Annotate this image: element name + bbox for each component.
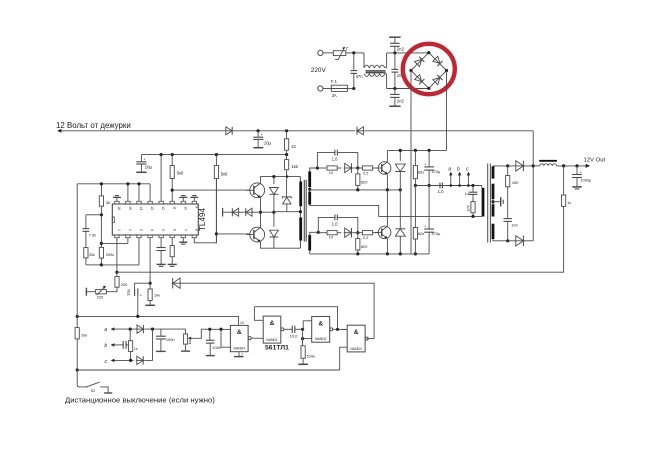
svg-text:7: 7: [183, 229, 187, 231]
label 150: [512, 180, 519, 185]
capacitor 1,0 (speed-up bottom): [318, 215, 358, 233]
test point a: [448, 166, 452, 187]
resistor 62к (bottom): [413, 186, 417, 254]
transistor Q4: [375, 226, 391, 239]
wire (to NAND4): [201, 328, 230, 330]
capacitor 10µ standby: [253, 131, 263, 148]
svg-text:F 1: F 1: [331, 79, 338, 84]
diode (base, bottom): [344, 228, 353, 237]
label 14: [240, 321, 244, 325]
label 7: [241, 353, 243, 357]
wire pin4: [149, 238, 151, 284]
node: [562, 164, 565, 167]
T2 secondary: [492, 166, 495, 239]
bridge nodes: [409, 51, 448, 90]
label 12 Вольт от дежурки: [56, 121, 131, 130]
svg-text:10: 10: [183, 206, 187, 210]
label 510к: [307, 354, 316, 359]
node: [414, 184, 417, 187]
svg-text:1м: 1м: [188, 340, 192, 345]
svg-text:+: +: [143, 158, 146, 162]
svg-text:Дистанционное выключение (если: Дистанционное выключение (если нужно): [65, 396, 215, 405]
label 10n: [397, 73, 405, 78]
wire (error amp bus): [77, 183, 150, 185]
wire (collector rail): [387, 149, 446, 151]
svg-text:10n: 10n: [511, 223, 518, 228]
wire (logic supply bus): [77, 316, 238, 325]
node: [285, 129, 288, 132]
test point b: [457, 166, 461, 187]
node: [76, 368, 79, 371]
input b: [104, 343, 123, 349]
node: [301, 337, 304, 340]
label 2,2: [363, 235, 369, 240]
wire pin13: [149, 184, 151, 202]
svg-text:100: 100: [466, 205, 470, 211]
svg-text:TL494: TL494: [198, 207, 207, 231]
wire pin14: [137, 182, 140, 201]
svg-text:b: b: [104, 343, 107, 349]
label 33к: [89, 252, 95, 257]
diode (input a): [136, 325, 144, 333]
transformer T1 primary: [299, 177, 301, 249]
node: [414, 252, 417, 255]
svg-text:+: +: [580, 170, 583, 174]
svg-text:16: 16: [117, 206, 121, 210]
diode (clamp lower): [270, 212, 279, 248]
label +: [580, 170, 583, 174]
transistor Q3: [375, 162, 391, 175]
svg-text:11: 11: [172, 206, 176, 210]
svg-text:&: &: [318, 320, 323, 327]
T2 core: [488, 164, 491, 243]
resistor 150: [506, 166, 510, 219]
svg-text:820: 820: [361, 179, 368, 184]
thermistor RT1: [333, 47, 346, 60]
label 10к: [81, 332, 87, 337]
svg-text:62к: 62к: [418, 170, 424, 175]
svg-text:12: 12: [161, 206, 165, 210]
bridge wiring: [411, 53, 447, 89]
bridge diode D2 (top-right): [433, 56, 443, 66]
ground (pot left): [85, 288, 87, 296]
svg-text:NAND2: NAND2: [315, 337, 327, 341]
label 1n: [465, 192, 469, 196]
svg-text:10к: 10к: [81, 332, 87, 337]
svg-text:510к: 510к: [307, 354, 316, 359]
resistor 10 (top): [317, 166, 341, 170]
svg-text:2n2: 2n2: [397, 98, 405, 103]
label S2: [91, 389, 96, 393]
svg-text:100n: 100n: [166, 337, 175, 342]
node: [317, 231, 320, 234]
node (neutral after fuse): [352, 87, 355, 90]
svg-text:3: 3: [139, 229, 143, 231]
resistor 10к (pin4): [148, 283, 152, 305]
diode (flyback bottom): [395, 190, 405, 254]
svg-text:3A: 3A: [332, 93, 337, 98]
svg-text:NAND4: NAND4: [234, 347, 246, 351]
wire (T1-B to main primary): [310, 205, 482, 217]
capacitor 47n: [350, 53, 357, 89]
wire pin1: [116, 238, 118, 273]
node: [575, 164, 578, 167]
resistor 33к: [84, 248, 102, 265]
node: [100, 242, 103, 245]
ground (pin6): [168, 264, 177, 266]
input c: [105, 359, 134, 365]
node: [356, 188, 359, 191]
capacitor 470µ (top): [424, 150, 434, 185]
label 2n2: [397, 98, 405, 103]
inductor L2: [533, 161, 585, 166]
capacitor 10,0 (osc): [284, 326, 303, 333]
node: [259, 211, 262, 214]
wire (to NAND3 out): [181, 283, 374, 338]
label +: [143, 158, 146, 162]
svg-text:1к5: 1к5: [291, 164, 298, 169]
IC bottom pins: [115, 229, 199, 238]
node: [356, 231, 359, 234]
resistor (pin6 RT): [170, 238, 174, 265]
node: [386, 188, 389, 191]
wire: [144, 329, 152, 360]
wire pin3: [101, 238, 139, 265]
wire (midpoint link): [386, 190, 388, 226]
svg-text:9: 9: [194, 206, 198, 208]
capacitor 10n (snubber sec): [504, 219, 512, 241]
node: [171, 153, 174, 156]
wire (Q3 emitter): [386, 174, 388, 190]
wire: [365, 130, 534, 132]
wire (osc feedback): [254, 307, 337, 330]
svg-text:14: 14: [139, 206, 143, 210]
node: [171, 189, 174, 192]
label 1м: [188, 340, 192, 345]
svg-text:561ТЛ1: 561ТЛ1: [265, 345, 289, 352]
svg-text:8: 8: [194, 229, 198, 231]
svg-text:33к: 33к: [89, 252, 95, 257]
wire: [346, 52, 351, 54]
svg-text:1: 1: [117, 229, 121, 231]
series diodes (base clamp): [223, 208, 261, 217]
wire (Q2 base): [216, 233, 249, 235]
label F1: [331, 79, 338, 84]
terminal J2 (mains neutral): [318, 86, 323, 91]
svg-text:2,2: 2,2: [363, 235, 369, 240]
diode (base, top): [344, 163, 353, 172]
ground (pin10): [179, 196, 187, 202]
resistor 62к (top): [413, 150, 417, 185]
resistor 1к (a-c): [129, 329, 133, 360]
svg-text:2n2: 2n2: [397, 47, 405, 52]
label 820: [361, 244, 368, 249]
svg-text:10: 10: [329, 235, 334, 240]
transformer T2 primary: [482, 188, 485, 217]
node: [316, 166, 319, 169]
wire: [323, 52, 333, 54]
wire: [303, 338, 312, 340]
node: [399, 149, 402, 152]
wire (NAND4 input 2): [221, 329, 230, 347]
wire (logic ground bus): [77, 369, 340, 371]
node: [115, 271, 118, 274]
wire pin12 to Vcc: [160, 155, 162, 202]
svg-text:62к: 62к: [418, 231, 424, 236]
capacitor 470µ (bottom): [424, 186, 434, 254]
svg-text:+: +: [424, 162, 427, 166]
label 220: [97, 295, 104, 300]
bridge diode D1 (top-left): [414, 57, 424, 67]
node: [219, 328, 222, 331]
label 470µ: [432, 231, 441, 236]
svg-text:10,0: 10,0: [290, 333, 299, 338]
resistor 820 (bottom): [356, 233, 360, 254]
red highlight circle: [403, 44, 455, 94]
svg-text:&: &: [237, 329, 242, 336]
ground (pin16): [113, 196, 121, 202]
label 2n2: [397, 47, 405, 52]
wire (Q3 collector): [386, 150, 388, 161]
resistor 5к6 (pin8 pull-up): [214, 155, 218, 243]
node: [414, 149, 417, 152]
label 200к: [106, 252, 114, 257]
label +: [424, 224, 427, 228]
wire (secondary top): [493, 165, 515, 167]
svg-text:820: 820: [361, 244, 368, 249]
wire (Q4 collector): [386, 225, 388, 227]
wire (NAND3 out): [367, 338, 374, 340]
label 10n: [511, 223, 518, 228]
node: [386, 252, 389, 255]
svg-text:10µ: 10µ: [145, 165, 153, 170]
wire pin2: [101, 238, 128, 244]
svg-text:+: +: [424, 224, 427, 228]
svg-text:2,2: 2,2: [363, 170, 369, 175]
label 100: [466, 205, 470, 211]
label 5к6: [177, 170, 184, 175]
svg-text:10к: 10к: [154, 292, 160, 297]
input a: [104, 327, 136, 333]
svg-text:1,0: 1,0: [332, 157, 338, 162]
wire (negative rail down): [410, 71, 412, 255]
wire (positive rail down): [446, 71, 448, 151]
resistor 10к (shutdown pull): [75, 328, 79, 370]
label 3A: [332, 93, 337, 98]
label 561ТЛ1: [265, 345, 289, 352]
diode (flyback top): [395, 150, 405, 190]
T1 secondary B: [308, 187, 311, 205]
label 100n: [166, 337, 175, 342]
node: [428, 184, 431, 187]
trimmer 220: [87, 286, 117, 296]
svg-text:100n: 100n: [212, 345, 221, 350]
node: [272, 175, 275, 178]
label 1к5: [291, 164, 298, 169]
wire: [161, 328, 186, 330]
IC U1 TL494 body: [112, 204, 198, 235]
node (live after thermistor): [351, 51, 364, 54]
node: [399, 188, 402, 191]
test point c: [466, 166, 470, 187]
svg-text:a: a: [448, 166, 451, 172]
wire: [233, 130, 355, 132]
diode (dead-time feed): [172, 278, 181, 288]
svg-text:47n: 47n: [356, 74, 364, 79]
T1 secondary C: [310, 232, 319, 254]
label 470µ: [432, 169, 441, 174]
resistor 200к: [99, 247, 103, 265]
svg-text:220V: 220V: [311, 67, 327, 74]
wire (Q2 emitter): [261, 242, 301, 248]
ground (pin9): [190, 196, 198, 202]
wire (Q1 base): [172, 189, 250, 191]
label 12V Out: [584, 158, 606, 164]
svg-text:&: &: [354, 329, 359, 336]
svg-text:15: 15: [128, 206, 132, 210]
label 10,0: [290, 333, 299, 338]
svg-text:470µ: 470µ: [432, 169, 441, 174]
node: [336, 328, 339, 331]
capacitor 10n (line-to-line): [392, 53, 399, 89]
svg-text:4: 4: [150, 229, 154, 231]
svg-text:1к: 1к: [134, 347, 138, 351]
wire: [387, 88, 429, 90]
wire (NAND4 out): [251, 337, 263, 339]
label 5к6: [221, 172, 228, 177]
resistor 5к6 (pin11 pull-up): [170, 155, 174, 191]
wire (emitter rail bottom): [310, 253, 429, 255]
capacitor 2n2 bottom: [389, 89, 400, 107]
label 200: [121, 282, 128, 287]
wire: [347, 88, 353, 90]
node: [532, 164, 535, 167]
svg-text:&: &: [270, 320, 275, 327]
capacitor 100n (delay): [206, 329, 215, 355]
node: [272, 211, 275, 214]
terminal J1 (mains live): [318, 50, 323, 55]
svg-text:+: +: [261, 133, 264, 137]
node: [286, 175, 288, 177]
wire (Q4 emitter): [386, 239, 388, 254]
capacitor 7.5n: [83, 215, 90, 248]
ground (NAND4 pin7): [234, 352, 244, 357]
svg-text:S2: S2: [91, 389, 96, 393]
wire (standby bus): [57, 129, 224, 133]
gate NAND3: [347, 325, 368, 352]
svg-text:200к: 200к: [106, 252, 114, 257]
resistor 10 (bottom): [318, 231, 341, 235]
node: [399, 252, 402, 255]
wire (NAND3 input 2): [340, 347, 348, 370]
gate NAND4: [230, 325, 251, 351]
label 1,0: [332, 222, 338, 227]
diode (rectifier top): [515, 161, 525, 171]
svg-text:220: 220: [97, 295, 104, 300]
wire: [387, 52, 429, 54]
wire: [261, 211, 274, 213]
wire pin8: [194, 179, 216, 243]
ground (pin4 10к): [145, 304, 155, 306]
resistor 510к: [298, 339, 308, 365]
node: [393, 51, 396, 54]
node: [129, 359, 132, 362]
node: [149, 282, 152, 285]
node: [208, 328, 211, 331]
wire (Q1 emitter to Q2 collector): [260, 197, 262, 227]
capacitor (pin5 CT): [157, 238, 166, 265]
node: [506, 239, 509, 242]
svg-text:c: c: [466, 166, 469, 172]
svg-text:6: 6: [172, 229, 176, 231]
node: [100, 263, 103, 266]
label 1к: [106, 200, 110, 205]
svg-text:1к: 1к: [106, 200, 110, 205]
label 2,2: [363, 170, 369, 175]
svg-text:t°: t°: [346, 46, 349, 51]
diode (clamp upper): [270, 177, 279, 213]
trimmer 1м (threshold): [181, 329, 201, 351]
svg-text:470µ: 470µ: [432, 231, 441, 236]
capacitor (input b): [123, 341, 128, 349]
node: [76, 315, 79, 318]
label 1,0: [438, 189, 444, 194]
wire: [145, 328, 161, 330]
svg-text:1n: 1n: [465, 192, 469, 196]
ground (pin5): [157, 264, 166, 266]
T1 core: [304, 180, 306, 242]
T1 tap node: [308, 188, 311, 191]
transistor Q1: [246, 183, 264, 198]
capacitor 1,0 (midline): [440, 183, 442, 189]
arrow (12V Out): [586, 164, 591, 168]
diode (input c): [136, 356, 144, 364]
label 62к: [418, 231, 424, 236]
node: [151, 328, 154, 331]
svg-text:7: 7: [241, 353, 243, 357]
wire (cap midpoint): [415, 186, 481, 188]
svg-text:10µ: 10µ: [126, 289, 131, 296]
capacitor 1000µ: [572, 166, 582, 189]
label Дистанционное выключение: [65, 396, 215, 405]
diode (rectifier bottom): [515, 236, 525, 246]
node: [393, 87, 396, 90]
svg-text:2: 2: [128, 229, 132, 231]
choke L1: [364, 53, 387, 89]
capacitor 10µ (soft start): [135, 283, 151, 316]
capacitor 1n (snubber): [469, 186, 478, 202]
wire: [523, 165, 533, 167]
svg-text:1000µ: 1000µ: [580, 177, 592, 182]
wire (Vcc bus): [141, 154, 286, 156]
resistor 2,2 (top): [353, 166, 378, 170]
resistor 2,2 (bottom): [353, 231, 379, 235]
wire: [303, 321, 312, 339]
wire (secondary bottom): [493, 239, 515, 241]
zener (driver clamp): [282, 197, 291, 212]
gate NAND2: [312, 317, 333, 343]
svg-text:10: 10: [329, 170, 334, 175]
wire (left rail): [76, 184, 78, 328]
label 10к: [154, 292, 160, 297]
svg-text:12V Out: 12V Out: [584, 158, 606, 164]
wire (feedback to NAND1): [254, 307, 263, 321]
label 1,0: [332, 157, 338, 162]
resistor 1к5: [285, 155, 289, 197]
node: [301, 328, 304, 331]
label 10µ: [126, 289, 131, 296]
wire (upper emitter line): [310, 189, 401, 191]
